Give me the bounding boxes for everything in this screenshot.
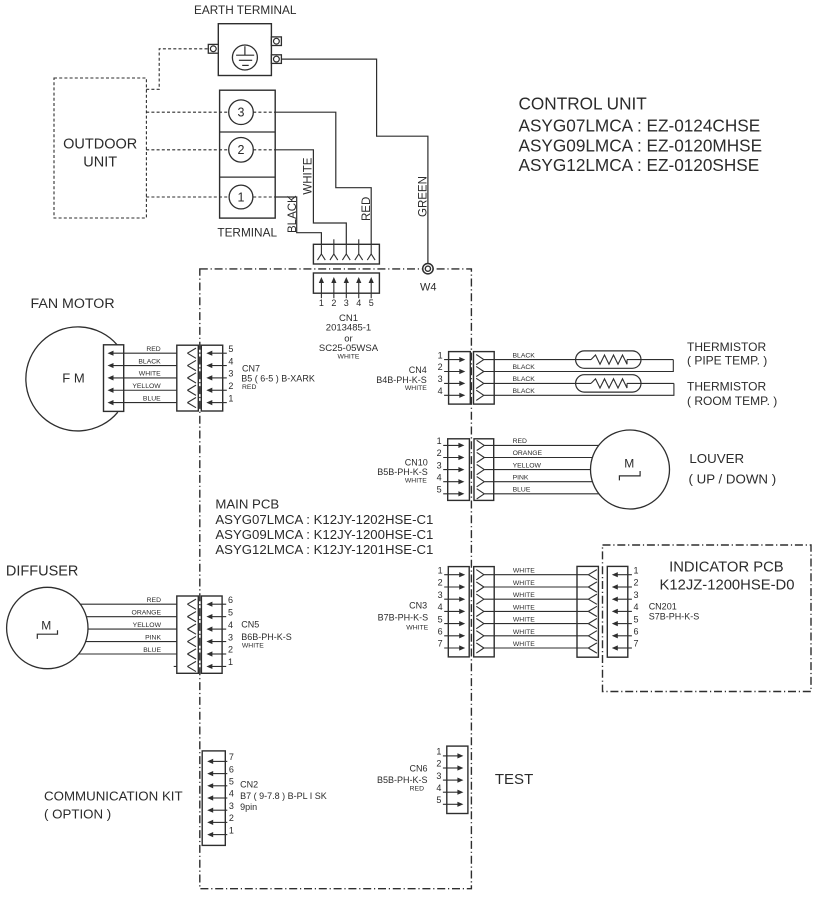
connector CN5 socket (PCB side) [201, 596, 222, 673]
wire BLACK thermistor loop 1 (pipe temp) [484, 359, 591, 361]
svg-text:9pin: 9pin [240, 802, 257, 812]
svg-text:WHITE: WHITE [139, 371, 161, 378]
wire WHITE: CN3 pin 1 to CN201 pin 1 [484, 574, 588, 576]
CN3 pin 6 arrow [444, 635, 460, 637]
svg-text:4: 4 [228, 356, 233, 366]
wire dashed: outdoor to terminal 3 [146, 111, 229, 113]
CN5 plug fork contact [187, 636, 196, 641]
svg-text:F M: F M [62, 370, 84, 385]
CN7 plug fork contact [187, 348, 196, 353]
svg-text:4: 4 [437, 472, 442, 482]
CN10 plug fork contact [477, 465, 485, 470]
svg-text:3: 3 [437, 460, 442, 470]
svg-text:RED: RED [361, 197, 373, 221]
svg-text:3: 3 [238, 106, 245, 120]
svg-text:5: 5 [369, 298, 374, 308]
svg-text:6: 6 [634, 627, 639, 637]
svg-text:B7 ( 9-7.8 ) B-PL I SK: B7 ( 9-7.8 ) B-PL I SK [240, 791, 327, 801]
svg-text:3: 3 [438, 374, 443, 384]
svg-text:3: 3 [634, 590, 639, 600]
CN5 plug fork contact [187, 612, 196, 617]
svg-text:UNIT: UNIT [83, 155, 117, 171]
svg-text:5: 5 [437, 485, 442, 495]
louver motor step symbol [619, 471, 640, 480]
wire WHITE: CN7 pin 3 to fan motor [113, 377, 188, 379]
svg-text:( UP / DOWN ): ( UP / DOWN ) [689, 471, 777, 486]
svg-text:WHITE: WHITE [513, 592, 535, 599]
svg-text:S7B-PH-K-S: S7B-PH-K-S [649, 612, 700, 622]
connector CN10 plug (louver side) [474, 439, 494, 501]
CN6 pin 1 arrow [443, 755, 459, 757]
svg-text:3: 3 [228, 632, 233, 642]
CN7 pin 3 arrow [211, 377, 227, 379]
svg-text:BLUE: BLUE [143, 395, 161, 402]
svg-text:ASYG12LMCA : EZ-0120SHSE: ASYG12LMCA : EZ-0120SHSE [519, 155, 760, 175]
CN2 pin 1 arrow [212, 834, 227, 836]
indicator plug fork contact [588, 582, 597, 587]
svg-text:BLUE: BLUE [513, 487, 531, 494]
CN10 pin 3 arrow [443, 469, 459, 471]
CN3 plug fork contact [476, 594, 484, 599]
earth terminal tab left [208, 44, 218, 53]
CN3 plug fork contact [476, 631, 484, 636]
svg-text:RED: RED [513, 438, 527, 445]
CN5 plug fork contact [187, 661, 196, 666]
svg-text:YELLOW: YELLOW [513, 462, 542, 469]
connector CN5 plug (diffuser side) [177, 596, 199, 673]
CN10 plug fork contact [477, 452, 485, 457]
indicator cable plug (to CN201) [577, 566, 598, 657]
CN1 plug contact 3 [345, 244, 347, 254]
CN201 pin 5 arrow [617, 623, 632, 625]
svg-text:ORANGE: ORANGE [513, 450, 543, 457]
CN4 plug fork contact [476, 355, 484, 360]
CN7 pin 5 arrow [211, 352, 227, 354]
svg-text:1: 1 [228, 657, 233, 667]
diffuser motor M body [7, 587, 88, 668]
wire BLACK: CN7 pin 4 to fan motor [113, 365, 188, 367]
CN1 plug contact 5 [370, 244, 372, 254]
connector CN7 socket (PCB side) [201, 345, 222, 411]
CN3 pin 7 arrow [444, 647, 460, 649]
svg-text:M: M [41, 618, 51, 632]
svg-text:RED: RED [410, 785, 424, 792]
svg-text:CN4: CN4 [409, 365, 427, 375]
svg-text:RED: RED [147, 597, 161, 604]
svg-text:WHITE: WHITE [513, 641, 535, 648]
CN201 pin 2 arrow [617, 586, 632, 588]
wire WHITE: CN3 pin 6 to CN201 pin 6 [484, 635, 588, 637]
svg-text:7: 7 [229, 752, 234, 762]
svg-text:DIFFUSER: DIFFUSER [6, 563, 79, 579]
terminal block TB1 [220, 90, 276, 218]
wire BLUE: CN10 pin 5 to louver motor [484, 493, 599, 495]
svg-text:BLACK: BLACK [513, 388, 536, 395]
svg-text:YELLOW: YELLOW [132, 383, 161, 390]
svg-text:RED: RED [146, 346, 160, 353]
svg-text:4: 4 [229, 789, 234, 799]
svg-text:FAN MOTOR: FAN MOTOR [31, 296, 115, 312]
connector CN7 plug (motor side) [177, 345, 199, 411]
indicator plug fork contact [588, 619, 597, 624]
connector CN6 socket (PCB side) [447, 746, 468, 813]
svg-text:2: 2 [438, 578, 443, 588]
main PCB boundary (dash-dot) [200, 269, 472, 889]
CN1 plug contact 4 [358, 239, 360, 254]
svg-text:B5B-PH-K-S: B5B-PH-K-S [377, 467, 428, 477]
wire PINK: CN10 pin 4 to louver motor [484, 481, 592, 483]
wire WHITE: CN3 pin 4 to CN201 pin 4 [484, 610, 588, 612]
svg-text:B6B-PH-K-S: B6B-PH-K-S [241, 632, 292, 642]
wire YELLOW: CN10 pin 3 to louver motor [484, 469, 590, 471]
CN10 pin 4 arrow [443, 481, 459, 483]
svg-text:4: 4 [438, 602, 443, 612]
wire WHITE: CN3 pin 3 to CN201 pin 3 [484, 598, 588, 600]
svg-text:BLACK: BLACK [513, 352, 536, 359]
CN7 pin 2 arrow [211, 389, 227, 391]
svg-text:CN10: CN10 [405, 457, 428, 467]
connector CN2 socket (PCB side) [202, 751, 225, 846]
CN6 pin 5 arrow [443, 803, 459, 805]
svg-text:2: 2 [228, 381, 233, 391]
CN5 pin 2 arrow [211, 653, 226, 655]
terminal 2 [229, 138, 254, 163]
CN10 plug fork contact [477, 489, 485, 494]
wire RED: CN7 pin 5 to fan motor [113, 352, 188, 354]
CN201 pin 6 arrow [617, 635, 632, 637]
earth terminal tab right lower [271, 55, 281, 64]
CN3 plug fork contact [476, 619, 484, 624]
outdoor unit box [54, 78, 146, 218]
CN7 plug fork contact [187, 385, 196, 390]
svg-text:4: 4 [356, 298, 361, 308]
louver motor M (up/down) [591, 430, 670, 509]
CN5 pin 1 arrow [211, 665, 226, 667]
svg-text:ASYG07LMCA : K12JY-1202HSE-C1: ASYG07LMCA : K12JY-1202HSE-C1 [215, 512, 433, 527]
wire dashed: outdoor to terminal 2 [146, 149, 229, 151]
CN3 pin 1 arrow [444, 574, 460, 576]
CN2 pin 5 arrow [212, 785, 227, 787]
CN3 pin 2 arrow [444, 586, 460, 588]
wire RED: CN10 pin 1 to louver motor [484, 444, 599, 446]
wire BLUE: diffuser motor to CN5 pin 2 [79, 653, 188, 655]
wire stub CN5 pin 1 [174, 665, 188, 667]
wire ORANGE: CN10 pin 2 to louver motor [484, 457, 592, 459]
svg-text:B5 ( 6-5 ) B-XARK: B5 ( 6-5 ) B-XARK [241, 374, 315, 384]
CN10 pin 2 arrow [443, 457, 459, 459]
connector CN4 plug (thermistor side) [474, 352, 495, 405]
svg-text:MAIN PCB: MAIN PCB [215, 497, 279, 512]
CN3 plug fork contact [476, 643, 484, 648]
svg-text:6: 6 [438, 627, 443, 637]
svg-text:5: 5 [438, 614, 443, 624]
svg-text:6: 6 [229, 764, 234, 774]
svg-text:W4: W4 [420, 282, 437, 294]
svg-text:ASYG12LMCA : K12JY-1201HSE-C1: ASYG12LMCA : K12JY-1201HSE-C1 [215, 542, 433, 557]
svg-text:ASYG09LMCA : EZ-0120MHSE: ASYG09LMCA : EZ-0120MHSE [519, 136, 763, 156]
wire RED: terminal 3 to CN1 pin 5 [275, 112, 371, 244]
CN1 plug contact 2 [333, 239, 335, 254]
CN5 plug fork contact [187, 624, 196, 629]
svg-text:4: 4 [438, 386, 443, 396]
CN5 pin 4 arrow [211, 628, 226, 630]
svg-text:1: 1 [238, 190, 245, 204]
CN7 plug fork contact [187, 373, 196, 378]
CN2 pin 4 arrow [212, 797, 227, 799]
CN201 pin 3 arrow [617, 598, 632, 600]
connector CN1 plug (wire side) [313, 244, 379, 264]
svg-text:7: 7 [634, 639, 639, 649]
wire YELLOW: CN7 pin 2 to fan motor [113, 389, 188, 391]
svg-text:BLACK: BLACK [513, 376, 536, 383]
svg-text:2013485-1: 2013485-1 [326, 323, 371, 334]
svg-text:CN5: CN5 [241, 620, 259, 630]
svg-text:1: 1 [319, 298, 324, 308]
svg-text:7: 7 [438, 639, 443, 649]
svg-text:INDICATOR PCB: INDICATOR PCB [669, 559, 784, 575]
wire YELLOW: diffuser motor to CN5 pin 4 [88, 628, 187, 630]
svg-text:CN201: CN201 [649, 601, 677, 611]
CN1 pin 2 arrow [333, 282, 335, 298]
svg-text:THERMISTOR: THERMISTOR [687, 340, 766, 354]
svg-text:WHITE: WHITE [405, 385, 427, 392]
earth terminal E1 body [218, 24, 271, 76]
CN5 plug fork contact [187, 649, 196, 654]
svg-text:CONTROL UNIT: CONTROL UNIT [519, 94, 648, 114]
svg-text:YELLOW: YELLOW [133, 622, 162, 629]
svg-text:TEST: TEST [495, 771, 533, 788]
ground (protective earth symbol) [232, 45, 257, 70]
svg-text:2: 2 [331, 298, 336, 308]
thermistor TH1 (pipe temp) body [576, 351, 641, 368]
svg-text:2: 2 [229, 813, 234, 823]
svg-text:BLACK: BLACK [287, 195, 299, 233]
svg-text:4: 4 [228, 620, 233, 630]
CN5 pin 6 arrow [211, 603, 226, 605]
svg-text:B7B-PH-K-S: B7B-PH-K-S [378, 613, 429, 623]
thermistor TH1 resistor element [591, 355, 627, 364]
svg-text:PINK: PINK [513, 474, 529, 481]
wire WHITE: CN3 pin 7 to CN201 pin 7 [484, 647, 588, 649]
CN3 plug fork contact [476, 582, 484, 587]
svg-text:( PIPE TEMP. ): ( PIPE TEMP. ) [687, 353, 767, 367]
CN7 plug fork contact [187, 398, 196, 403]
CN5 pin 3 arrow [211, 641, 226, 643]
indicator plug fork contact [588, 643, 597, 648]
wire BLACK: terminal 1 to CN1 pin 1 [275, 197, 321, 244]
svg-text:2: 2 [437, 448, 442, 458]
CN2 pin 6 arrow [212, 773, 227, 775]
CN201 pin 4 arrow [617, 610, 632, 612]
svg-text:5: 5 [228, 607, 233, 617]
svg-text:WHITE: WHITE [513, 629, 535, 636]
indicator plug fork contact [588, 594, 597, 599]
svg-text:CN7: CN7 [242, 363, 260, 373]
svg-text:WHITE: WHITE [303, 157, 315, 194]
CN2 pin 2 arrow [212, 821, 227, 823]
CN6 pin 3 arrow [443, 779, 459, 781]
svg-text:BLUE: BLUE [143, 647, 161, 654]
svg-text:2: 2 [238, 143, 245, 157]
indicator plug fork contact [588, 606, 597, 611]
wire GREEN: earth terminal to node W4 [281, 59, 428, 264]
svg-text:LOUVER: LOUVER [689, 451, 744, 466]
wire RED: diffuser motor to CN5 pin 6 [80, 603, 187, 605]
wire ORANGE: diffuser motor to CN5 pin 5 [86, 616, 187, 618]
svg-text:B4B-PH-K-S: B4B-PH-K-S [376, 375, 427, 385]
diffuser motor step symbol [37, 630, 57, 639]
indicator plug fork contact [588, 631, 597, 636]
svg-text:CN3: CN3 [409, 601, 427, 611]
svg-text:2: 2 [436, 759, 441, 769]
svg-text:ASYG07LMCA : EZ-0124CHSE: ASYG07LMCA : EZ-0124CHSE [519, 116, 761, 136]
CN4 pin 3 arrow [444, 382, 460, 384]
CN4 pin 1 arrow [444, 359, 460, 361]
CN4 plug fork contact [476, 390, 484, 395]
wire BLACK thermistor loop 2 (room temp) [484, 382, 591, 384]
indicator PCB boundary (dash-dot) [603, 545, 812, 692]
svg-text:EARTH TERMINAL: EARTH TERMINAL [194, 3, 297, 17]
CN201 pin 1 arrow [617, 574, 632, 576]
svg-text:3: 3 [344, 298, 349, 308]
wire dashed: outdoor to terminal 1 [146, 196, 229, 198]
svg-text:5: 5 [229, 777, 234, 787]
svg-text:2: 2 [228, 645, 233, 655]
CN5 plug fork contact [187, 599, 196, 604]
CN3 pin 4 arrow [444, 610, 460, 612]
svg-text:3: 3 [436, 771, 441, 781]
svg-text:5: 5 [436, 795, 441, 805]
CN3 pin 3 arrow [444, 598, 460, 600]
svg-text:WHITE: WHITE [513, 617, 535, 624]
svg-text:RED: RED [242, 384, 256, 391]
CN10 pin 1 arrow [443, 444, 459, 446]
fan motor terminal box [104, 345, 124, 412]
svg-text:K12JZ-1200HSE-D0: K12JZ-1200HSE-D0 [660, 577, 795, 593]
thermistor TH2 (room temp) body [576, 375, 641, 392]
svg-text:TERMINAL: TERMINAL [217, 226, 277, 240]
svg-text:WHITE: WHITE [406, 624, 428, 631]
svg-text:ORANGE: ORANGE [132, 610, 162, 617]
CN4 pin 4 arrow [444, 394, 460, 396]
CN7 plug fork contact [187, 360, 196, 365]
CN3 plug fork contact [476, 570, 484, 575]
connector CN3 plug (cable side) [474, 567, 495, 657]
svg-text:WHITE: WHITE [513, 604, 535, 611]
svg-text:OUTDOOR: OUTDOOR [63, 137, 137, 153]
wire PINK: diffuser motor to CN5 pin 3 [86, 641, 188, 643]
CN201 pin 7 arrow [617, 647, 632, 649]
CN4 plug fork contact [476, 378, 484, 383]
svg-text:1: 1 [634, 565, 639, 575]
svg-text:1: 1 [436, 747, 441, 757]
svg-text:1: 1 [229, 825, 234, 835]
svg-text:WHITE: WHITE [513, 568, 535, 575]
svg-text:1: 1 [438, 565, 443, 575]
svg-text:6: 6 [228, 595, 233, 605]
svg-text:2: 2 [438, 362, 443, 372]
svg-text:WHITE: WHITE [338, 353, 360, 360]
svg-text:1: 1 [228, 393, 233, 403]
connector CN1 socket (PCB side) [313, 273, 379, 293]
wire BLUE: CN7 pin 1 to fan motor [113, 402, 188, 404]
svg-text:4: 4 [436, 783, 441, 793]
CN10 pin 5 arrow [443, 493, 459, 495]
svg-text:( OPTION ): ( OPTION ) [44, 806, 111, 821]
earth terminal tab right upper [271, 37, 281, 46]
svg-text:WHITE: WHITE [405, 477, 427, 484]
connector CN3 socket (PCB side) [448, 567, 469, 657]
svg-text:WHITE: WHITE [513, 580, 535, 587]
CN1 pin 3 arrow [345, 282, 347, 298]
CN4 plug fork contact [476, 366, 484, 371]
svg-text:BLACK: BLACK [513, 364, 536, 371]
svg-text:PINK: PINK [145, 635, 161, 642]
CN1 pin 1 arrow [320, 282, 322, 298]
CN3 plug fork contact [476, 606, 484, 611]
svg-text:3: 3 [229, 801, 234, 811]
wire WHITE: CN3 pin 5 to CN201 pin 5 [484, 623, 588, 625]
terminal 1 [229, 185, 253, 209]
CN5 pin 5 arrow [211, 616, 226, 618]
svg-text:1: 1 [437, 436, 442, 446]
svg-text:BLACK: BLACK [138, 358, 161, 365]
svg-text:5: 5 [228, 344, 233, 354]
CN1 pin 5 arrow [370, 282, 372, 298]
svg-text:( ROOM TEMP. ): ( ROOM TEMP. ) [687, 394, 777, 408]
svg-text:5: 5 [634, 614, 639, 624]
svg-text:1: 1 [438, 350, 443, 360]
CN7 pin 4 arrow [211, 365, 227, 367]
CN2 pin 7 arrow [212, 760, 227, 762]
svg-text:THERMISTOR: THERMISTOR [687, 379, 766, 393]
indicator plug fork contact [588, 570, 597, 575]
CN2 pin 3 arrow [212, 809, 227, 811]
CN7 pin 1 arrow [211, 402, 227, 404]
svg-text:CN6: CN6 [409, 764, 427, 774]
CN10 plug fork contact [477, 440, 485, 445]
svg-text:3: 3 [228, 369, 233, 379]
node W4 [423, 264, 433, 274]
svg-text:ASYG09LMCA : K12JY-1200HSE-C1: ASYG09LMCA : K12JY-1200HSE-C1 [215, 527, 433, 542]
svg-text:3: 3 [438, 590, 443, 600]
CN6 pin 4 arrow [443, 791, 459, 793]
connector CN10 socket (PCB side) [448, 439, 470, 501]
svg-text:WHITE: WHITE [242, 642, 264, 649]
CN1 pin 4 arrow [358, 282, 360, 298]
wire dashed: outdoor unit to earth terminal [146, 49, 208, 90]
svg-text:4: 4 [634, 602, 639, 612]
svg-text:B5B-PH-K-S: B5B-PH-K-S [377, 775, 428, 785]
svg-text:M: M [624, 457, 634, 471]
CN10 plug fork contact [477, 477, 485, 482]
thermistor TH2 resistor element [591, 379, 627, 388]
wire WHITE: CN3 pin 2 to CN201 pin 2 [484, 586, 588, 588]
terminal 3 [229, 100, 254, 125]
CN6 pin 2 arrow [443, 767, 459, 769]
svg-text:COMMUNICATION KIT: COMMUNICATION KIT [44, 789, 183, 804]
CN4 pin 2 arrow [444, 371, 460, 373]
connector CN201 socket (indicator PCB) [607, 566, 628, 657]
connector CN4 socket (PCB side) [449, 352, 471, 405]
CN1 plug contact 1 [320, 244, 322, 254]
fan motor FM body [26, 327, 118, 431]
CN3 pin 5 arrow [444, 623, 460, 625]
svg-text:2: 2 [634, 578, 639, 588]
wire WHITE: terminal 2 to CN1 pin 3 [275, 150, 346, 245]
svg-text:GREEN: GREEN [418, 176, 430, 217]
svg-text:CN2: CN2 [240, 780, 258, 790]
